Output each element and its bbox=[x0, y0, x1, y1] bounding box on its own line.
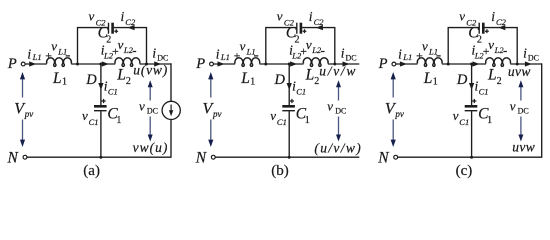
svg-text:(c): (c) bbox=[456, 163, 473, 179]
svg-text:uvw: uvw bbox=[512, 139, 535, 154]
svg-text:u/v/w: u/v/w bbox=[319, 64, 357, 79]
svg-text:(b): (b) bbox=[271, 163, 289, 179]
svg-text:(a): (a) bbox=[83, 163, 100, 179]
svg-text:uvw: uvw bbox=[508, 64, 531, 79]
svg-text:u(vw): u(vw) bbox=[133, 63, 168, 78]
svg-text:vw(u): vw(u) bbox=[133, 140, 169, 155]
svg-text:(u/v/w): (u/v/w) bbox=[314, 140, 362, 155]
